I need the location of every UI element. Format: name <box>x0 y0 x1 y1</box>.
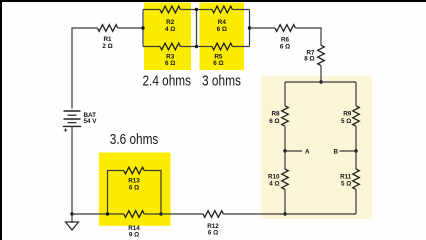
wire combo1 bottom right lead <box>180 46 196 48</box>
svg-text:A: A <box>305 148 310 155</box>
value label R6 6ohm <box>280 36 290 50</box>
wire combo1 top left lead <box>143 9 160 11</box>
value label R3 6ohm <box>165 54 175 68</box>
svg-text:R8: R8 <box>271 111 280 118</box>
svg-text:6 Ω: 6 Ω <box>208 230 218 237</box>
wire combo2 bottom right lead <box>232 46 249 48</box>
wire combo2 top right lead <box>232 9 249 11</box>
svg-text:3 ohms: 3 ohms <box>202 74 241 90</box>
wire R11 to bottom right corner <box>355 189 357 214</box>
value label R2 4ohm <box>165 19 175 33</box>
wire R13 loop left vertical <box>108 171 124 215</box>
highlight box around bridge R8-R11 <box>261 76 372 220</box>
junction R7 bridge top rail <box>319 80 322 83</box>
svg-text:6 Ω: 6 Ω <box>269 118 279 125</box>
wire bottom rail ground to R14 <box>72 213 124 215</box>
wire R10 to bottom rail <box>284 189 286 214</box>
wire bridge right upper lead <box>355 82 357 106</box>
svg-text:R9: R9 <box>343 111 352 118</box>
junction R13 right <box>159 212 162 215</box>
junction R13 left <box>106 212 109 215</box>
resistor R10 <box>282 169 289 189</box>
svg-text:R10: R10 <box>268 174 280 181</box>
wire node B to R11 <box>355 151 357 169</box>
highlight box around R2,R3 <box>144 3 191 71</box>
svg-text:9 Ω: 9 Ω <box>129 231 139 238</box>
frame left border <box>0 0 2 240</box>
wire R7 to bridge top <box>320 66 322 82</box>
value label R9 5ohm <box>341 111 352 125</box>
wire R6 to R7 corner <box>295 28 321 45</box>
svg-text:2.4 ohms: 2.4 ohms <box>143 74 192 90</box>
wire combo2 bottom left lead <box>197 46 213 48</box>
svg-text:6 Ω: 6 Ω <box>217 26 227 33</box>
wire node A to R10 <box>284 151 286 169</box>
resistor R7 <box>318 45 325 65</box>
wire battery top to R1 <box>72 28 97 109</box>
svg-text:8 Ω: 8 Ω <box>304 56 314 63</box>
junction bottom rail left <box>283 212 286 215</box>
resistor R3 <box>160 43 180 50</box>
svg-text:3.6 ohms: 3.6 ohms <box>110 132 159 148</box>
resistor R2 <box>160 6 180 13</box>
wire combo1 top right lead <box>180 9 196 11</box>
value label R4 6ohm <box>217 19 227 33</box>
wire R9 to node B <box>355 126 357 151</box>
wire node B stub <box>340 150 357 152</box>
junction top middle <box>195 8 198 11</box>
resistor R4 <box>212 6 232 13</box>
wire bridge left upper lead <box>284 82 286 106</box>
wire node to R6 <box>250 27 276 29</box>
wire combo1 left vertical <box>142 10 144 47</box>
junction node B <box>354 149 357 152</box>
battery BAT 54V <box>63 111 81 126</box>
wire battery to bottom rail <box>71 126 73 214</box>
resistor R8 <box>282 106 289 126</box>
junction combo2 right node <box>248 26 251 29</box>
junction at R1 and combo1 <box>141 26 144 29</box>
resistor R1 <box>97 25 117 32</box>
svg-text:5 Ω: 5 Ω <box>341 118 351 125</box>
svg-text:R1: R1 <box>103 36 112 43</box>
svg-text:6 Ω: 6 Ω <box>129 185 139 192</box>
junction bottom middle <box>195 45 198 48</box>
value label R7 8ohm <box>304 49 315 62</box>
ground <box>66 214 79 230</box>
svg-text:R6: R6 <box>281 36 290 43</box>
value label R1 2ohm <box>102 36 112 50</box>
svg-text:R4: R4 <box>218 19 227 26</box>
svg-text:R11: R11 <box>340 174 352 181</box>
wire bridge bottom rail <box>285 213 356 215</box>
wire node A stub <box>285 150 302 152</box>
junction ground node <box>70 212 73 215</box>
svg-text:4 Ω: 4 Ω <box>269 181 279 188</box>
svg-text:54 V: 54 V <box>84 118 98 125</box>
highlight box around R4,R5 <box>200 3 245 71</box>
wire combo1 bottom left lead <box>143 46 160 48</box>
svg-text:5 Ω: 5 Ω <box>341 181 351 188</box>
wire bridge top rail <box>285 81 356 83</box>
value label R11 5ohm <box>340 174 352 188</box>
value label R12 6ohm <box>207 223 219 237</box>
svg-text:+: + <box>64 128 68 135</box>
svg-text:4 Ω: 4 Ω <box>165 26 175 33</box>
value label R5 6ohm <box>213 54 223 68</box>
frame top border <box>0 0 426 2</box>
wire middle vertical between combos <box>196 10 198 47</box>
resistor R12 <box>203 211 223 218</box>
value label R10 4ohm <box>268 174 280 188</box>
value label BAT 54V <box>84 112 98 125</box>
wire R8 to node A <box>284 126 286 151</box>
highlight box around R13,R14 <box>99 153 171 226</box>
value label R13 6ohm <box>128 178 140 192</box>
resistor R9 <box>353 106 360 126</box>
value label R14 9ohm <box>128 225 140 238</box>
wire R1 to node <box>118 27 143 29</box>
svg-text:R2: R2 <box>166 19 175 26</box>
wire combo2 right vertical <box>249 10 251 47</box>
resistor R13 <box>124 167 144 174</box>
wire R12 to bridge bottom <box>223 213 285 215</box>
svg-text:R13: R13 <box>128 178 140 185</box>
junction node A <box>283 149 286 152</box>
svg-text:2 Ω: 2 Ω <box>102 43 112 50</box>
value label R8 6ohm <box>269 111 280 125</box>
resistor R11 <box>353 169 360 189</box>
wire combo2 top left lead <box>197 9 213 11</box>
resistor R5 <box>212 43 232 50</box>
svg-text:6 Ω: 6 Ω <box>165 60 175 67</box>
wire R14 to R12 <box>144 213 203 215</box>
resistor R6 <box>275 25 295 32</box>
resistor R14 <box>124 211 144 218</box>
svg-text:6 Ω: 6 Ω <box>280 43 290 50</box>
wire R13 loop right vertical <box>144 171 161 215</box>
svg-text:B: B <box>333 148 338 155</box>
svg-text:6 Ω: 6 Ω <box>213 60 223 67</box>
